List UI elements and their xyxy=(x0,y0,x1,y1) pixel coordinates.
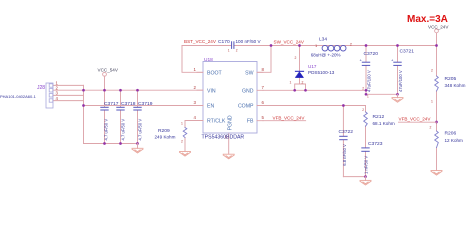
wire R212 to C3723 xyxy=(365,126,367,176)
svg-text:BOOT: BOOT xyxy=(207,70,223,76)
wire R205 to node xyxy=(436,91,438,122)
svg-text:C3718: C3718 xyxy=(121,101,136,107)
wire C3721 branch xyxy=(397,46,399,95)
svg-text:COMP: COMP xyxy=(238,104,254,110)
svg-text:C3723: C3723 xyxy=(368,141,383,147)
svg-text:6.8 nF/50 V: 6.8 nF/50 V xyxy=(342,144,347,166)
junction node comp gnd xyxy=(364,175,367,178)
svg-text:VCC_54V: VCC_54V xyxy=(98,67,119,72)
svg-text:2: 2 xyxy=(194,85,197,90)
junction node C3722 top xyxy=(342,104,345,107)
wire R209 to ground xyxy=(184,138,186,152)
ground input caps xyxy=(132,148,143,153)
junction node SW rail xyxy=(270,44,273,47)
svg-text:PDS5100-13: PDS5100-13 xyxy=(308,70,335,75)
svg-text:C3717: C3717 xyxy=(104,101,119,107)
wire J28 pin4 xyxy=(53,100,84,102)
capacitor C3719 xyxy=(134,107,141,110)
svg-text:4.7 uF/50 V: 4.7 uF/50 V xyxy=(103,119,108,141)
junction node gnd row end xyxy=(365,89,368,92)
ground U18 PGND xyxy=(223,154,234,159)
capacitor C3721 xyxy=(394,62,401,65)
svg-text:C3721: C3721 xyxy=(400,49,415,55)
pin stubs U18 right xyxy=(257,72,263,120)
wire COMP row xyxy=(263,105,366,107)
wire VCC_24V column top xyxy=(436,33,438,76)
wire top BST rail left segment xyxy=(182,45,231,47)
capacitor C3717 xyxy=(101,107,108,110)
svg-text:R212: R212 xyxy=(373,114,385,120)
wire diode anode legs xyxy=(295,78,306,91)
wire R206 to ground xyxy=(436,148,438,171)
wire gnd stub comp xyxy=(365,177,367,181)
capacitor C3720 xyxy=(362,62,369,65)
capacitor C3722 xyxy=(340,136,347,139)
svg-text:2: 2 xyxy=(181,140,183,144)
wire C3719 branch xyxy=(137,90,139,143)
wire PGND stub xyxy=(228,133,230,154)
svg-text:PGND: PGND xyxy=(227,115,233,130)
wire R212 branch top xyxy=(365,106,367,112)
wire RT/CLK branch xyxy=(185,121,203,128)
ground comp network xyxy=(360,180,371,185)
inductor L34 xyxy=(322,45,346,51)
power symbol VCC_24V xyxy=(435,29,439,33)
svg-text:SW: SW xyxy=(245,70,253,76)
svg-text:4.7 uF/50 V: 4.7 uF/50 V xyxy=(120,119,125,141)
wire GND row xyxy=(263,89,366,91)
junction node C3720 bottom xyxy=(365,93,368,96)
svg-text:4: 4 xyxy=(194,115,197,120)
svg-text:TPS54360BDDAR: TPS54360BDDAR xyxy=(202,135,245,141)
wire SW pin branch xyxy=(257,46,271,73)
svg-text:2: 2 xyxy=(295,56,297,60)
svg-text:U18: U18 xyxy=(204,57,213,63)
svg-text:R205: R205 xyxy=(445,76,457,82)
svg-text:EN: EN xyxy=(207,104,214,110)
wire VCC_54V drop xyxy=(104,76,106,90)
wire top rail mid segment xyxy=(234,45,436,47)
svg-text:L34: L34 xyxy=(319,36,327,42)
svg-text:SW_VCC_24V: SW_VCC_24V xyxy=(274,40,305,45)
junction node VCC24 rail xyxy=(435,44,438,47)
svg-text:1: 1 xyxy=(431,100,433,104)
wire diode cathode vertical xyxy=(299,46,301,72)
svg-text:2: 2 xyxy=(362,86,364,90)
wire C3718 branch xyxy=(120,90,122,143)
wire C3722 branch xyxy=(342,106,344,177)
resistor R212 xyxy=(364,112,368,126)
connector J28 xyxy=(46,83,53,108)
svg-text:1: 1 xyxy=(228,49,230,53)
svg-text:47uF/100 V: 47uF/100 V xyxy=(398,70,403,92)
svg-text:GND: GND xyxy=(242,88,254,94)
junction node C3717 bottom xyxy=(103,142,106,145)
power symbol VCC_54V xyxy=(103,72,107,76)
svg-text:VFB_VCC_24V: VFB_VCC_24V xyxy=(273,116,306,121)
svg-text:1: 1 xyxy=(367,95,369,99)
svg-text:VFB_VCC_24V: VFB_VCC_24V xyxy=(399,117,432,122)
svg-text:U17: U17 xyxy=(308,64,317,69)
wire FB stub xyxy=(263,120,306,122)
wire C3720 branch xyxy=(365,46,367,95)
resistor R209 xyxy=(183,128,187,138)
svg-text:1: 1 xyxy=(181,122,183,126)
svg-text:RT/CLK: RT/CLK xyxy=(207,119,226,125)
svg-text:2: 2 xyxy=(236,49,238,53)
wire J28 pin1 xyxy=(53,84,84,86)
svg-text:7: 7 xyxy=(262,85,265,90)
svg-text:VCC_24V: VCC_24V xyxy=(428,25,449,30)
svg-text:3: 3 xyxy=(194,100,197,105)
capacitor C170 xyxy=(232,42,234,49)
junction node J28 to EN xyxy=(82,104,85,107)
wire node to R206 xyxy=(436,122,438,131)
wire C3717 branch xyxy=(104,90,106,143)
svg-text:PHA101-0402A60-1: PHA101-0402A60-1 xyxy=(0,94,37,99)
junction node C3721 top xyxy=(396,44,399,47)
wire gnd stub input caps xyxy=(137,144,139,149)
ground R209 xyxy=(180,152,191,157)
svg-text:FB: FB xyxy=(247,119,254,125)
wire output cap ground rail xyxy=(366,93,398,95)
junction node C3718 bottom xyxy=(119,142,122,145)
pin names U18 xyxy=(207,70,254,130)
svg-text:1: 1 xyxy=(290,81,292,85)
junction node C3720 top xyxy=(365,44,368,47)
junction node C3719 top xyxy=(136,89,139,92)
svg-text:68.1 Kohm: 68.1 Kohm xyxy=(373,121,395,126)
wire VIN rail xyxy=(53,89,203,91)
junction node J28 to VIN xyxy=(82,89,85,92)
ground output caps xyxy=(392,98,403,103)
svg-text:348 Kohm: 348 Kohm xyxy=(445,83,466,88)
wire BOOT pin branch xyxy=(182,46,203,73)
junction node diode leg1 xyxy=(293,89,296,92)
wire input cap ground rail xyxy=(84,143,138,145)
resistor R206 xyxy=(435,131,439,148)
capacitor C3723 xyxy=(362,148,369,151)
svg-text:12 Kohm: 12 Kohm xyxy=(445,138,464,143)
wire J28 pin3 xyxy=(53,94,84,96)
svg-text:5: 5 xyxy=(262,115,265,120)
svg-text:1: 1 xyxy=(194,67,197,72)
junction node diode top rail xyxy=(298,44,301,47)
pin stubs U18 left xyxy=(197,72,203,120)
svg-text:R209: R209 xyxy=(158,128,170,134)
svg-text:VIN: VIN xyxy=(207,88,216,94)
junction node C3721 bottom xyxy=(396,93,399,96)
svg-text:2: 2 xyxy=(430,126,432,130)
svg-text:47uF/100 V: 47uF/100 V xyxy=(366,70,371,92)
svg-text:1 nF/50 V: 1 nF/50 V xyxy=(364,156,369,174)
svg-text:68uH@ +-20%: 68uH@ +-20% xyxy=(311,52,341,57)
junction node VCC54 C3717 xyxy=(103,89,106,92)
svg-text:4.7 uF/50 V: 4.7 uF/50 V xyxy=(137,119,142,141)
svg-text:BST_VCC_24V: BST_VCC_24V xyxy=(184,39,217,44)
svg-text:Max.=3A: Max.=3A xyxy=(407,14,448,25)
ground R206 xyxy=(431,171,442,176)
svg-text:100 nF/50 V: 100 nF/50 V xyxy=(236,39,262,44)
wire EN row xyxy=(84,105,204,107)
junction node C3718 top xyxy=(119,89,122,92)
diode U17 xyxy=(295,72,303,78)
junction node VFB right xyxy=(435,121,438,124)
capacitor C3718 xyxy=(117,107,124,110)
wire comp ground rail xyxy=(343,176,365,178)
svg-text:2: 2 xyxy=(431,69,433,73)
resistor R205 xyxy=(435,76,439,91)
svg-text:2: 2 xyxy=(362,108,364,112)
svg-text:R206: R206 xyxy=(445,131,457,137)
op-amp U18 regulator box xyxy=(203,62,257,134)
svg-text:6: 6 xyxy=(262,100,265,105)
junction node C3719 bottom xyxy=(136,142,139,145)
svg-text:249 Kohm: 249 Kohm xyxy=(155,135,176,140)
svg-text:C3722: C3722 xyxy=(339,129,354,135)
wire gnd stub output caps xyxy=(397,94,399,97)
pin numbers U18 xyxy=(194,67,265,140)
svg-text:C3719: C3719 xyxy=(138,101,153,107)
svg-text:C170: C170 xyxy=(218,39,230,45)
svg-text:J28: J28 xyxy=(37,85,45,91)
wire VFB right stub xyxy=(399,121,437,123)
svg-text:2: 2 xyxy=(302,81,304,85)
svg-text:8: 8 xyxy=(262,67,265,72)
junction node diode leg2 xyxy=(304,89,307,92)
wire J28 vertical bus xyxy=(83,85,85,143)
svg-text:C3720: C3720 xyxy=(364,51,379,57)
